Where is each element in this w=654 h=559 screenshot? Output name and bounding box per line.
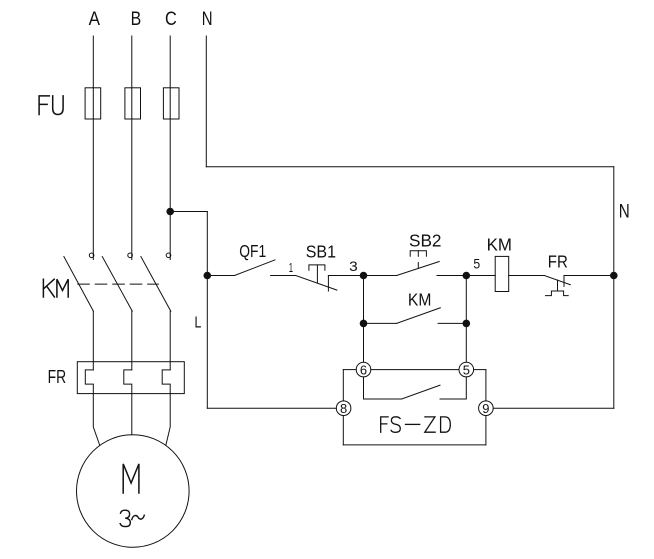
svg-text:B: B bbox=[131, 9, 142, 30]
wire pole A below contactor bbox=[92, 311, 94, 370]
fuse FU label bbox=[39, 96, 63, 115]
svg-text:6: 6 bbox=[360, 363, 367, 378]
terminal circle 9 bbox=[479, 401, 494, 416]
thermal contact FR stem bbox=[557, 280, 559, 291]
thermal relay FR heater pole B bbox=[124, 370, 132, 394]
wire C junction to L branch bbox=[170, 211, 207, 213]
wire FR to N bbox=[564, 275, 614, 277]
wire QF1 to SB1 bbox=[271, 275, 296, 277]
breaker QF1 blade bbox=[235, 260, 275, 276]
fuse FU pole B bbox=[125, 88, 141, 119]
wire N right vertical bbox=[613, 167, 615, 408]
contactor KM pole A fixed contact circle bbox=[89, 253, 94, 258]
wire pole A to motor bbox=[93, 394, 100, 446]
pushbutton SB2 stem bbox=[417, 251, 419, 256]
auxiliary contact KM blade bbox=[397, 308, 441, 324]
svg-text:N: N bbox=[202, 9, 213, 30]
contactor KM pole C blade bbox=[141, 257, 171, 312]
svg-text:SB1: SB1 bbox=[306, 242, 336, 262]
wire phase B vertical top bbox=[131, 36, 133, 260]
wire L to terminal 8 bbox=[207, 407, 336, 409]
svg-text:L: L bbox=[195, 314, 202, 331]
node L junction dot bbox=[204, 272, 212, 280]
node N right junction dot bbox=[610, 272, 618, 280]
contactor KM label bbox=[43, 279, 68, 297]
wire terminal 9 to N bbox=[493, 407, 614, 409]
motor M circle bbox=[77, 435, 190, 548]
wire N vertical top bbox=[205, 36, 207, 167]
motor 3~ label bbox=[120, 510, 130, 526]
node 3 junction dot bbox=[360, 272, 368, 280]
svg-text:5: 5 bbox=[473, 256, 480, 272]
svg-text:5: 5 bbox=[463, 363, 470, 378]
relay FS-ZD internal switch blade bbox=[402, 385, 440, 399]
wire pole C to motor bbox=[166, 394, 170, 446]
relay FS-ZD box bottom edge bbox=[343, 444, 486, 446]
wire node3 to SB2 bbox=[364, 275, 397, 277]
terminal circle 6 bbox=[356, 362, 371, 377]
pushbutton SB2 cap bbox=[410, 251, 426, 256]
wire aux right bbox=[438, 322, 466, 324]
terminal circle 8 bbox=[336, 401, 351, 416]
wire phase A through fuse to contact bbox=[92, 88, 94, 260]
contactor KM linkage dashed line bbox=[78, 283, 159, 285]
wire node5 down bbox=[465, 276, 467, 363]
relay FS-ZD box top edge bbox=[343, 369, 356, 371]
wire coil to FR contact bbox=[509, 275, 545, 277]
thermal relay FR box bbox=[77, 362, 184, 394]
thermal contact FR element bbox=[546, 291, 569, 296]
svg-text:FR: FR bbox=[48, 367, 67, 387]
svg-text:A: A bbox=[89, 9, 101, 30]
svg-text:8: 8 bbox=[340, 401, 347, 416]
pushbutton SB2 blade bbox=[397, 262, 440, 276]
wire SB2 to node 5 bbox=[437, 275, 466, 277]
pushbutton SB1 stem bbox=[316, 265, 318, 283]
svg-text:KM: KM bbox=[487, 234, 512, 254]
wire node3 down bbox=[363, 276, 365, 363]
relay FS-ZD internal switch left lead bbox=[364, 377, 402, 399]
thermal contact FR blade bbox=[544, 276, 570, 285]
contactor KM pole B fixed contact circle bbox=[128, 253, 133, 258]
svg-text:QF1: QF1 bbox=[239, 241, 266, 261]
wire pole C below contactor bbox=[169, 311, 171, 370]
fuse FU pole A bbox=[85, 88, 101, 119]
svg-text:9: 9 bbox=[482, 401, 489, 416]
coil KM rectangle bbox=[495, 256, 509, 291]
pushbutton SB1 blade bbox=[296, 276, 337, 291]
pushbutton SB1 cap bbox=[309, 265, 325, 270]
svg-text:KM: KM bbox=[408, 290, 432, 310]
relay FS-ZD box right edge bbox=[485, 370, 487, 401]
contactor KM pole B blade bbox=[102, 257, 132, 312]
contactor KM pole A blade bbox=[64, 257, 94, 312]
relay FS-ZD box left edge bbox=[342, 370, 344, 401]
relay FS-ZD internal switch right lead bbox=[440, 377, 466, 399]
terminal circle 5 bbox=[459, 362, 474, 377]
svg-text:C: C bbox=[165, 9, 177, 30]
wire phase A vertical top bbox=[92, 36, 94, 88]
wire L to QF1 bbox=[207, 275, 234, 277]
node aux-left junction dot bbox=[360, 320, 368, 328]
svg-text:1: 1 bbox=[289, 260, 293, 275]
pushbutton SB1 fixed bar bbox=[327, 276, 329, 292]
relay FS-ZD label bbox=[381, 417, 451, 433]
wire L vertical bbox=[206, 212, 208, 409]
wire N horizontal bbox=[206, 166, 614, 168]
wire phase C vertical top bbox=[169, 36, 171, 212]
fuse FU pole C bbox=[163, 88, 179, 119]
svg-text:3: 3 bbox=[349, 258, 358, 274]
node C junction dot bbox=[166, 208, 174, 216]
thermal contact FR fixed bar bbox=[563, 276, 565, 287]
wire aux left bbox=[364, 322, 397, 324]
thermal relay FR heater pole C bbox=[162, 370, 170, 394]
svg-text:FR: FR bbox=[548, 252, 568, 272]
contactor KM pole C fixed contact circle bbox=[166, 253, 171, 258]
node 5 junction dot bbox=[463, 272, 471, 280]
node aux-right junction dot bbox=[463, 320, 471, 328]
wire pole B to motor bbox=[131, 394, 133, 435]
svg-text:N: N bbox=[619, 202, 630, 223]
wire pole B below contactor bbox=[131, 311, 133, 370]
wire node5 to coil bbox=[466, 275, 495, 277]
motor M letter bbox=[123, 464, 139, 493]
thermal relay FR heater pole A bbox=[85, 370, 93, 394]
wire SB1 to node 3 bbox=[328, 275, 363, 277]
svg-text:SB2: SB2 bbox=[409, 230, 442, 250]
